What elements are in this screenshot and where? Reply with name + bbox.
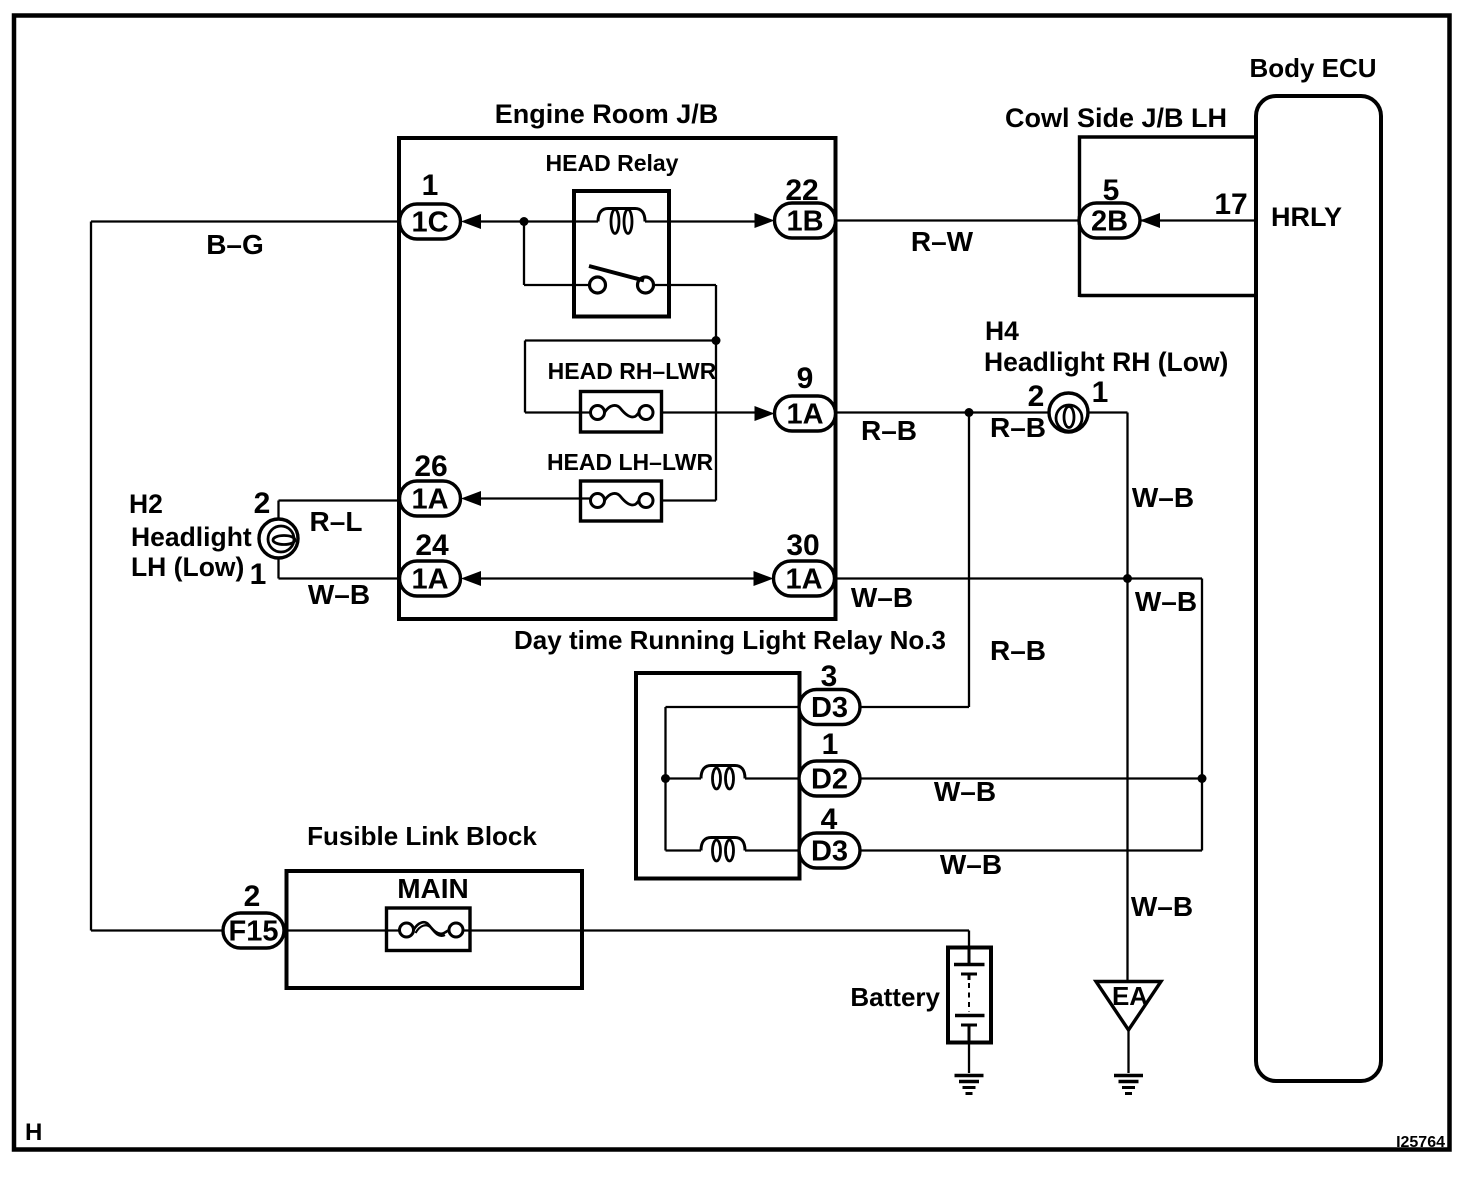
svg-text:W–B: W–B: [308, 579, 370, 610]
svg-text:R–W: R–W: [911, 226, 974, 257]
svg-text:1: 1: [422, 169, 439, 202]
svg-text:1A: 1A: [786, 399, 823, 431]
svg-text:R–B: R–B: [990, 412, 1046, 443]
svg-text:I25764: I25764: [1396, 1134, 1445, 1151]
svg-text:17: 17: [1214, 188, 1247, 221]
svg-text:HEAD RH–LWR: HEAD RH–LWR: [548, 358, 717, 384]
svg-text:Fusible Link Block: Fusible Link Block: [307, 821, 537, 851]
svg-text:2B: 2B: [1091, 206, 1128, 238]
svg-text:D3: D3: [811, 836, 848, 868]
svg-text:MAIN: MAIN: [397, 873, 469, 904]
svg-text:5: 5: [1103, 174, 1120, 207]
svg-text:2: 2: [244, 880, 261, 913]
svg-text:Engine Room J/B: Engine Room J/B: [495, 99, 719, 129]
svg-text:W–B: W–B: [851, 582, 913, 613]
svg-text:1A: 1A: [411, 484, 448, 516]
svg-text:R–B: R–B: [861, 415, 917, 446]
svg-text:30: 30: [786, 529, 819, 562]
svg-text:W–B: W–B: [1135, 586, 1197, 617]
svg-text:W–B: W–B: [940, 849, 1002, 880]
svg-text:R–L: R–L: [310, 506, 363, 537]
svg-text:4: 4: [821, 803, 838, 836]
svg-text:Cowl Side J/B LH: Cowl Side J/B LH: [1005, 103, 1227, 133]
svg-text:26: 26: [414, 450, 447, 483]
svg-text:Headlight RH (Low): Headlight RH (Low): [984, 347, 1228, 377]
svg-text:1A: 1A: [785, 564, 822, 596]
svg-text:Headlight: Headlight: [131, 522, 252, 552]
svg-text:W–B: W–B: [1131, 891, 1193, 922]
svg-text:LH (Low): LH (Low): [131, 552, 244, 582]
svg-text:1: 1: [250, 558, 267, 591]
svg-text:2: 2: [254, 487, 271, 520]
svg-text:W–B: W–B: [934, 776, 996, 807]
svg-text:24: 24: [415, 529, 449, 562]
svg-text:1: 1: [1092, 376, 1109, 409]
svg-text:1B: 1B: [786, 206, 823, 238]
svg-text:Body ECU: Body ECU: [1249, 53, 1376, 83]
svg-text:Day time Running Light Relay N: Day time Running Light Relay No.3: [514, 625, 946, 655]
svg-text:H4: H4: [985, 316, 1019, 346]
svg-text:HEAD LH–LWR: HEAD LH–LWR: [547, 449, 714, 475]
svg-text:EA: EA: [1112, 981, 1148, 1011]
svg-text:22: 22: [785, 174, 818, 207]
svg-text:9: 9: [797, 362, 814, 395]
svg-text:3: 3: [821, 660, 838, 693]
svg-text:HRLY: HRLY: [1271, 202, 1342, 232]
svg-text:W–B: W–B: [1132, 482, 1194, 513]
svg-text:Battery: Battery: [850, 982, 940, 1012]
svg-text:HEAD Relay: HEAD Relay: [546, 150, 679, 176]
svg-text:D2: D2: [811, 764, 848, 796]
svg-text:1A: 1A: [411, 564, 448, 596]
svg-text:1C: 1C: [411, 207, 448, 239]
svg-text:D3: D3: [811, 692, 848, 724]
svg-text:2: 2: [1028, 380, 1045, 413]
svg-text:B–G: B–G: [206, 229, 264, 260]
svg-text:H: H: [25, 1119, 42, 1146]
svg-text:R–B: R–B: [990, 635, 1046, 666]
svg-text:1: 1: [822, 728, 839, 761]
svg-text:F15: F15: [229, 916, 279, 948]
svg-text:H2: H2: [129, 489, 163, 519]
